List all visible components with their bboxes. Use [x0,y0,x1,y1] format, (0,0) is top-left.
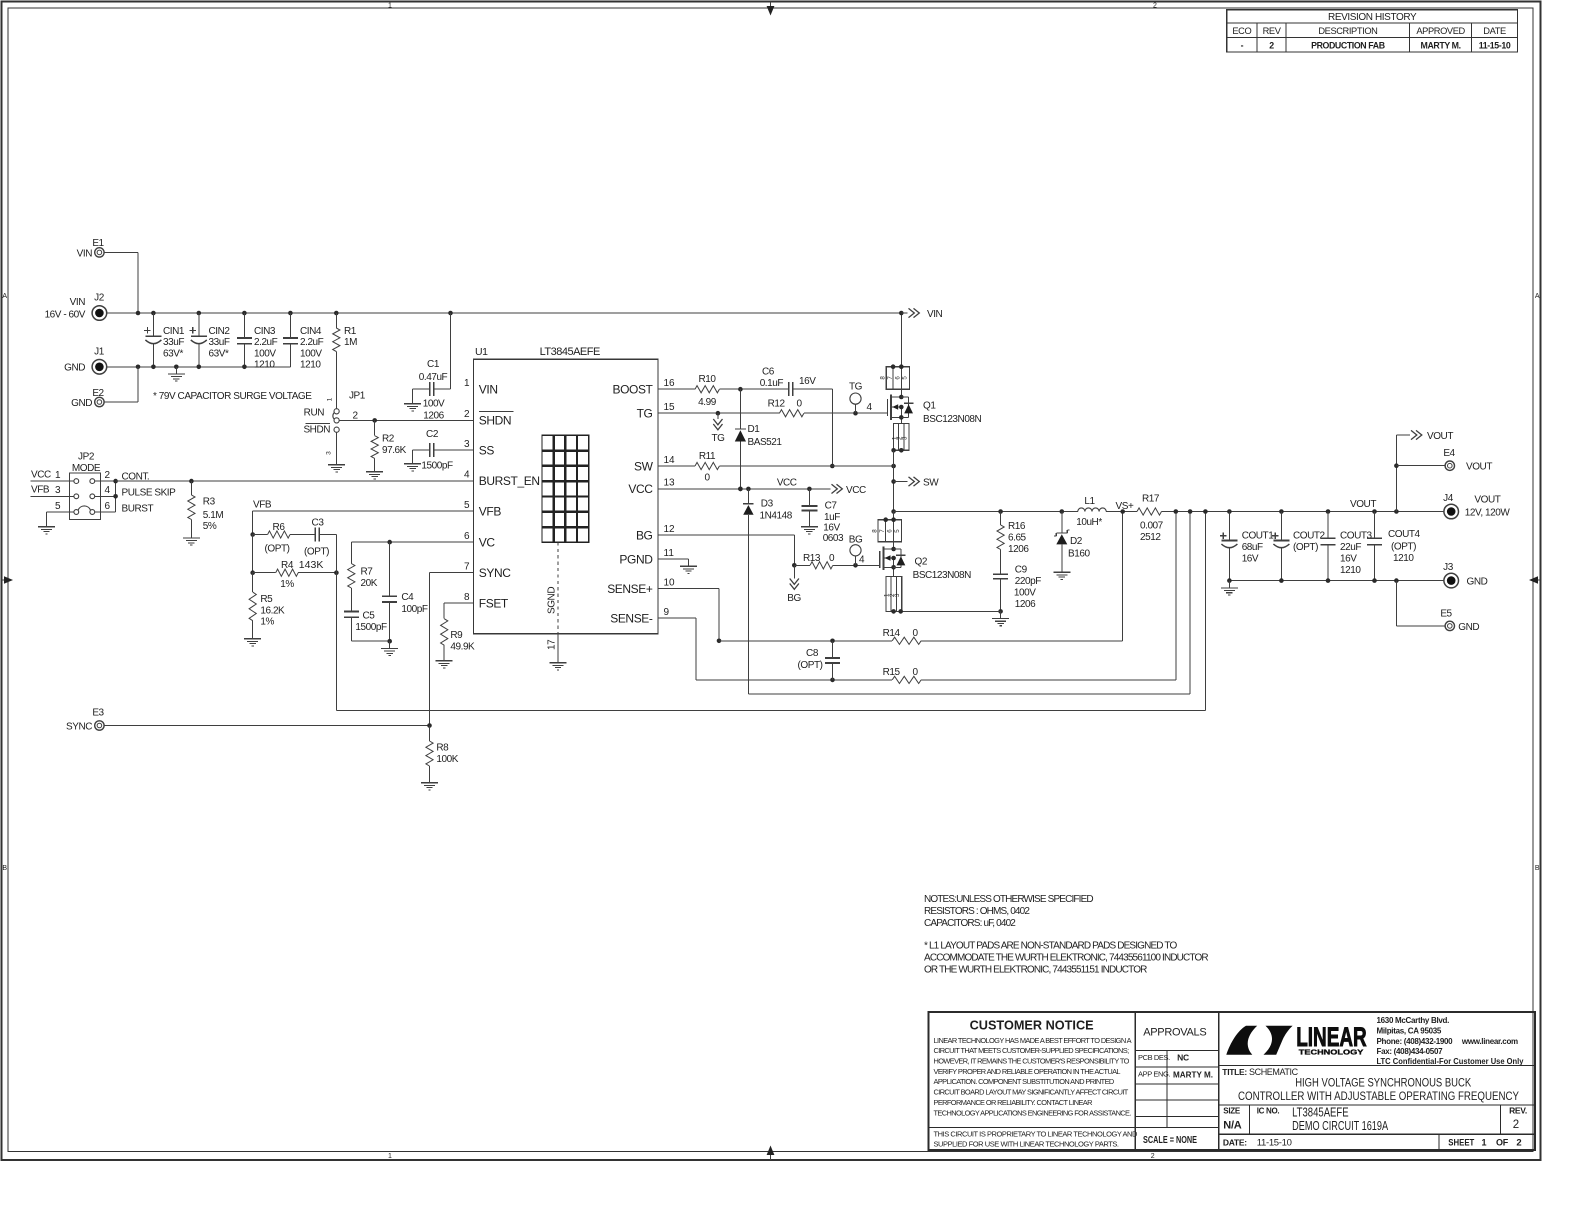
svg-text:U1: U1 [475,346,488,358]
svg-text:JP2: JP2 [78,452,95,463]
resistor R4 143K [250,535,338,591]
title block address [1377,1016,1525,1066]
svg-text:VIN: VIN [70,297,86,308]
wire BG pin12 [658,535,797,568]
resistor R16 6.65 1206 [997,512,1029,575]
capacitor CIN3 2.2uF [237,311,278,371]
U1 pin 9 SENSE- [610,607,669,626]
svg-text:(OPT): (OPT) [304,547,329,558]
svg-text:2.2uF: 2.2uF [300,337,324,348]
resistor R17 0.007 2512 [1137,494,1164,544]
wire VC net pin6 [351,540,473,545]
svg-text:7: 7 [887,376,894,380]
zone marker 2 top [1153,3,1157,10]
svg-text:D1: D1 [748,424,761,435]
U1 pin 8 FSET [464,592,509,611]
svg-text:THIS CIRCUIT IS PROPRIETARY TO: THIS CIRCUIT IS PROPRIETARY TO LINEAR TE… [934,1129,1138,1138]
svg-text:SIZE: SIZE [1223,1107,1241,1116]
svg-text:6: 6 [887,529,894,533]
svg-text:CIN1: CIN1 [163,326,185,337]
svg-text:DESCRIPTION: DESCRIPTION [1318,26,1377,36]
svg-text:REV: REV [1263,26,1282,36]
svg-text:SS: SS [479,444,495,458]
svg-text:J3: J3 [1443,562,1454,573]
svg-text:6.65: 6.65 [1008,532,1027,543]
svg-text:TG: TG [849,381,863,392]
Q2 body diode [894,549,906,567]
wire Q1 source to SW [891,450,896,511]
svg-text:BURST_EN: BURST_EN [479,474,540,488]
svg-text:SENSE-: SENSE- [610,611,653,625]
ground D2 [1053,565,1070,579]
svg-text:4: 4 [464,470,470,481]
svg-text:E1: E1 [92,238,104,249]
net stub BG down [787,565,801,604]
svg-text:* 79V CAPACITOR SURGE VOLTAGE: * 79V CAPACITOR SURGE VOLTAGE [153,391,312,402]
U1 pin 15 TG [637,402,675,421]
net arrow SW [894,477,940,489]
svg-text:9: 9 [664,607,670,618]
wire VOUT to E4 and arrow [1394,435,1445,512]
resistor R5 16.2K [249,573,285,632]
wire VFB sense return vertical [335,535,337,711]
svg-text:R9: R9 [450,630,463,641]
svg-text:1uF: 1uF [824,512,840,523]
title block size/ic/rev section [1219,1104,1535,1134]
wire SYNC net pin7 [430,573,474,726]
svg-text:R4: R4 [281,560,294,571]
svg-text:2: 2 [105,470,111,481]
svg-text:10: 10 [664,578,676,589]
svg-text:APP ENG.: APP ENG. [1138,1070,1170,1079]
ground C2 [404,457,421,471]
U1 pin 17 SGND [547,542,559,655]
resistor R13 0 [794,553,835,569]
svg-text:N/A: N/A [1223,1119,1241,1131]
capacitor CIN1 33uF [144,311,185,369]
svg-text:1: 1 [1481,1138,1486,1148]
jumper JP1 RUN/SHDN [303,391,365,458]
ground R5 [244,632,261,646]
svg-text:C4: C4 [401,592,414,603]
capacitor COUT2 (OPT) [1272,512,1326,581]
svg-text:VCC: VCC [628,482,653,496]
svg-text:PRODUCTION FAB: PRODUCTION FAB [1311,40,1385,50]
U1 pin 1 VIN [464,378,498,397]
U1 pin 12 BG [636,524,675,543]
svg-text:REVISION HISTORY: REVISION HISTORY [1328,12,1417,23]
svg-text:4: 4 [866,402,872,413]
svg-text:J2: J2 [94,293,105,304]
svg-text:R12: R12 [768,399,786,410]
op-amp U1 LT3845AEFE controller [473,346,658,634]
connector E4 VOUT [1443,448,1492,472]
svg-text:(OPT): (OPT) [265,544,290,555]
resistor R8 100K [426,726,459,776]
svg-text:VCC: VCC [777,477,797,488]
svg-text:1500pF: 1500pF [421,461,453,472]
svg-text:3: 3 [55,485,61,496]
svg-text:1500pF: 1500pF [355,622,387,633]
ground JP1 pin3 [328,458,345,472]
capacitor COUT1 68uF 16V [1220,512,1274,581]
ground PGND [680,559,697,573]
svg-text:5: 5 [464,500,470,511]
svg-text:APPLICATION. COMPONENT SUBSTI: APPLICATION. COMPONENT SUBSTITUTION AND … [934,1077,1114,1086]
svg-text:REV.: REV. [1509,1105,1527,1115]
svg-text:11: 11 [664,548,675,559]
wire PGND pin11 [658,558,689,560]
svg-text:2: 2 [1151,1153,1155,1160]
capacitor C2 1500pF [413,429,474,472]
ground Q2/R16/C9 [992,611,1009,625]
svg-text:PGND: PGND [619,552,653,566]
svg-text:16V: 16V [823,523,840,534]
svg-text:1210: 1210 [1393,553,1414,564]
wire E3 to SYNC [104,723,432,728]
svg-text:VOUT: VOUT [1427,431,1453,442]
svg-text:TG: TG [712,433,726,444]
wire SENSE- pin9 [658,618,696,680]
svg-text:1630 McCarthy Blvd.: 1630 McCarthy Blvd. [1377,1016,1450,1025]
svg-text:R8: R8 [436,743,449,754]
svg-text:1: 1 [388,3,392,10]
svg-text:R5: R5 [260,594,273,605]
capacitor CIN4 2.2uF [283,311,324,371]
svg-text:12V, 120W: 12V, 120W [1465,507,1511,518]
svg-text:MARTY M.: MARTY M. [1173,1070,1213,1080]
svg-text:0.47uF: 0.47uF [419,372,448,383]
svg-text:TECHNOLOGY: TECHNOLOGY [1299,1048,1364,1057]
connector E3 SYNC [66,708,105,733]
svg-text:14: 14 [664,455,676,466]
transistor Q2 pin block bottom [884,577,903,614]
svg-text:GND: GND [1458,622,1479,633]
title block title section [1219,1065,1535,1102]
svg-text:VERIFY PROPER AND RELIABLE OPE: VERIFY PROPER AND RELIABLE OPERATION IN … [934,1067,1121,1076]
svg-text:PCB DES.: PCB DES. [1138,1053,1170,1062]
wire R13 to Q2 gate [833,554,880,567]
svg-text:16.2K: 16.2K [260,605,285,616]
wire R12 to Q1 gate [804,402,888,416]
svg-text:5.1M: 5.1M [203,510,224,521]
svg-text:DATE: DATE [1483,26,1506,36]
svg-text:SHDN: SHDN [303,425,330,436]
ground C4 C5 [381,641,398,655]
svg-text:4: 4 [859,554,865,565]
svg-text:8: 8 [871,529,878,533]
transistor Q1 BSC123N08N [888,389,982,425]
svg-text:CIN4: CIN4 [300,326,322,337]
connector J4 VOUT 12V 120W [1443,493,1510,519]
svg-text:R6: R6 [273,522,286,533]
revision history table [1227,10,1518,52]
svg-text:2: 2 [1513,1119,1519,1131]
wire D3 anode to VOUT [748,512,1190,694]
svg-text:Q2: Q2 [915,557,928,568]
wire VOUT rail [1162,499,1445,514]
resistor R6 (OPT) [250,522,315,555]
svg-text:C7: C7 [825,501,838,512]
svg-text:BSC123N08N: BSC123N08N [913,570,972,581]
net arrow VOUT [1411,430,1453,442]
svg-text:0603: 0603 [823,533,844,544]
svg-text:1%: 1% [260,617,274,628]
svg-text:100V: 100V [254,348,276,359]
svg-text:97.6K: 97.6K [382,445,407,456]
svg-text:R2: R2 [382,434,395,445]
svg-text:PERFORMANCE OR RELIABILITY. C: PERFORMANCE OR RELIABILITY. CONTACT LINE… [934,1098,1093,1107]
svg-text:D2: D2 [1070,536,1083,547]
U1 pin 7 SYNC [464,561,511,580]
title block approvals [1135,1027,1219,1147]
svg-text:ACCOMMODATE THE WURTH ELEKTRON: ACCOMMODATE THE WURTH ELEKTRONIC, 744355… [924,953,1208,964]
connector J1 GND [64,346,107,374]
svg-text:DATE:: DATE: [1223,1137,1247,1147]
svg-text:3: 3 [902,436,909,440]
resistor R14 0 [719,512,1123,645]
svg-text:16V: 16V [1242,554,1259,565]
svg-text:TECHNOLOGY APPLICATIONS ENGINE: TECHNOLOGY APPLICATIONS ENGINEERING FOR … [934,1108,1132,1117]
svg-text:63V*: 63V* [163,348,183,359]
capacitor CIN2 33uF [190,311,231,369]
svg-text:63V*: 63V* [209,348,229,359]
svg-text:0: 0 [912,628,918,639]
svg-text:E4: E4 [1443,448,1455,459]
capacitor C8 (OPT) [798,641,840,680]
zone marker B right [1535,865,1540,872]
svg-text:0: 0 [796,399,802,410]
svg-text:B: B [1535,865,1540,872]
zone marker A left [2,293,7,300]
resistor R12 0 [768,399,804,417]
diode D1 BAS521 [735,389,783,491]
svg-text:ECO: ECO [1232,26,1251,36]
svg-text:20K: 20K [361,578,378,589]
svg-text:VFB: VFB [253,499,272,510]
diode D3 1N4148 [743,489,793,694]
svg-text:R16: R16 [1008,521,1026,532]
svg-text:VOUT: VOUT [1474,495,1500,506]
svg-text:10uH*: 10uH* [1076,517,1102,528]
svg-text:SGND: SGND [547,587,558,614]
wire BOOST pin16 [658,388,695,390]
svg-text:11-15-10: 11-15-10 [1257,1137,1292,1148]
title block customer notice [929,1012,1536,1150]
svg-text:C9: C9 [1015,565,1028,576]
svg-text:RESISTORS : OHMS, 0402: RESISTORS : OHMS, 0402 [924,906,1030,917]
svg-text:E3: E3 [92,708,104,719]
capacitor C4 100pF [382,542,428,643]
svg-text:C8: C8 [806,648,819,659]
capacitor C3 (OPT) [304,518,336,558]
wire VFB sense return to VOUT [336,512,1205,711]
svg-text:SYNC: SYNC [479,566,511,580]
node BG circle [849,534,863,565]
net arrow VCC [832,484,866,496]
svg-text:R3: R3 [203,497,216,508]
svg-text:J4: J4 [1443,493,1454,504]
zone marker B left [2,865,7,872]
svg-text:BOOST: BOOST [612,383,653,397]
svg-text:BSC123N08N: BSC123N08N [923,414,982,425]
svg-text:R15: R15 [883,667,901,678]
zone marker A right [1535,293,1540,300]
wire output GND rail [1227,578,1444,583]
svg-text:SUPPLIED FOR USE WITH LINEAR T: SUPPLIED FOR USE WITH LINEAR TECHNOLOGY … [934,1139,1119,1148]
wire JP2 pins 2-4-6 tie [95,471,176,514]
svg-text:6: 6 [105,501,111,512]
wire Q2 source rail to ground [902,610,1001,612]
svg-text:0: 0 [912,667,918,678]
svg-text:IC NO.: IC NO. [1257,1107,1280,1116]
svg-text:JP1: JP1 [349,391,366,402]
svg-text:13: 13 [664,478,676,489]
svg-text:Fax: (408)434-0507: Fax: (408)434-0507 [1377,1047,1444,1056]
svg-text:1%: 1% [280,579,294,590]
svg-text:R13: R13 [803,553,821,564]
svg-text:MARTY M.: MARTY M. [1421,40,1461,50]
svg-text:0: 0 [704,473,710,484]
svg-text:11-15-10: 11-15-10 [1479,40,1511,50]
Q1 body diode [901,397,913,417]
svg-text:SHDN: SHDN [479,414,511,428]
connector E1 VIN [77,238,105,259]
svg-text:100V: 100V [1014,588,1036,599]
svg-text:2: 2 [1516,1137,1521,1148]
svg-text:3: 3 [464,439,470,450]
svg-text:3: 3 [894,593,901,597]
svg-text:4.99: 4.99 [698,397,717,408]
svg-text:SCHEMATIC: SCHEMATIC [1249,1067,1299,1077]
transistor Q1 pin block bottom [891,423,909,452]
svg-text:NOTES:UNLESS OTHERWISE SPECIFI: NOTES:UNLESS OTHERWISE SPECIFIED [924,894,1093,905]
svg-text:VIN: VIN [77,248,93,259]
svg-text:APPROVED: APPROVED [1416,26,1465,36]
transistor Q1 BSC123N08N pin block top [880,311,910,390]
U1 pin 10 SENSE+ [607,578,675,597]
connector J3 GND [1443,562,1487,588]
svg-text:VCC: VCC [31,470,51,481]
svg-text:R7: R7 [361,567,374,578]
resistor R2 97.6K [371,420,407,464]
svg-text:2: 2 [1269,40,1274,50]
svg-text:100K: 100K [436,754,458,765]
zone marker 1 top [388,3,392,10]
wire SW rail to L1 [891,509,1078,514]
svg-text:VCC: VCC [846,485,866,496]
svg-text:SW: SW [634,459,654,473]
svg-text:2: 2 [1153,3,1157,10]
svg-text:MODE: MODE [72,463,101,474]
svg-text:TG: TG [637,407,653,421]
svg-text:100pF: 100pF [401,604,427,615]
svg-text:17: 17 [547,639,558,650]
wire GND to E5 [1396,581,1445,626]
svg-text:0.007: 0.007 [1140,521,1164,532]
svg-text:GND: GND [64,363,85,374]
svg-text:8: 8 [464,592,470,603]
ground R3 [183,531,200,545]
connector J2 VIN [45,293,107,321]
svg-text:www.linear.com: www.linear.com [1461,1037,1518,1046]
ground R9 [436,654,453,668]
svg-text:C2: C2 [426,429,439,440]
U1 pin 16 BOOST [612,378,675,397]
connector E5 GND [1440,608,1479,632]
svg-text:2.2uF: 2.2uF [254,337,278,348]
wire FSET net pin8 [444,603,473,619]
svg-text:LT3845AEFE: LT3845AEFE [540,346,600,358]
U1 pin 6 VC [464,531,495,550]
svg-text:12: 12 [664,524,676,535]
wire TG pin15 [658,411,779,416]
U1 pin 5 VFB [464,500,501,519]
inductor L1 10uH [1076,496,1106,528]
svg-text:2: 2 [464,409,470,420]
svg-text:1206: 1206 [423,410,444,421]
center arrow top [767,2,775,16]
svg-text:SENSE+: SENSE+ [607,582,653,596]
svg-text:VIN: VIN [927,309,943,320]
svg-text:R17: R17 [1142,494,1160,505]
svg-text:D3: D3 [761,499,774,510]
svg-text:1210: 1210 [300,360,321,371]
diode D2 B160 [1054,512,1090,566]
svg-text:16V - 60V: 16V - 60V [45,310,86,321]
transistor Q2 BSC123N08N pin block top [871,512,901,542]
transistor Q2 BSC123N08N [880,542,971,581]
svg-text:100V: 100V [423,399,445,410]
svg-text:CONTROLLER WITH ADJUSTABLE OPE: CONTROLLER WITH ADJUSTABLE OPERATING FRE… [1238,1091,1519,1103]
svg-text:4: 4 [105,485,111,496]
svg-text:R11: R11 [699,451,716,462]
svg-text:VFB: VFB [479,504,502,518]
svg-text:1N4148: 1N4148 [760,511,793,522]
svg-text:DEMO CIRCUIT 1619A: DEMO CIRCUIT 1619A [1292,1118,1388,1133]
svg-text:VOUT: VOUT [1466,462,1492,473]
wire C6 to SW [830,389,835,468]
svg-text:220pF: 220pF [1015,576,1041,587]
svg-text:1M: 1M [344,337,357,348]
resistor R1 1M [333,311,357,409]
svg-text:1210: 1210 [254,360,275,371]
ground JP2 pin5 [38,520,55,534]
net arrow VIN [901,308,942,320]
svg-text:Milpitas, CA 95035: Milpitas, CA 95035 [1377,1026,1442,1035]
wire BURST_EN net [116,479,474,484]
svg-text:(OPT): (OPT) [798,660,823,671]
svg-text:CIN3: CIN3 [254,326,276,337]
svg-text:SW: SW [923,477,939,488]
svg-text:VC: VC [479,535,496,549]
svg-text:BAS521: BAS521 [748,437,783,448]
center arrow left [2,576,14,584]
svg-text:RUN: RUN [304,408,325,419]
svg-text:HOWEVER, IT REMAINS THE CUSTOM: HOWEVER, IT REMAINS THE CUSTOMER'S RESPO… [934,1057,1130,1066]
svg-text:1: 1 [55,470,61,481]
ground COUT bank [1221,581,1238,595]
svg-text:C6: C6 [762,367,775,378]
zone marker 2 bottom [1151,1153,1155,1160]
center arrow bottom [767,1146,775,1161]
svg-text:15: 15 [664,402,676,413]
svg-text:49.9K: 49.9K [450,641,475,652]
svg-text:OF: OF [1496,1138,1509,1148]
resistor R9 49.9K [441,619,475,654]
center arrow right [1529,576,1540,584]
svg-text:Q1: Q1 [923,401,936,412]
